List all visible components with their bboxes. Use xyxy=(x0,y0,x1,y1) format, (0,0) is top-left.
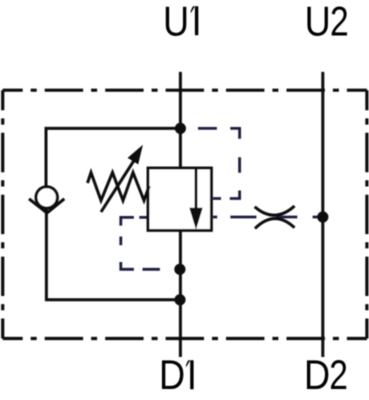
port label U2 xyxy=(305,0,349,45)
wire bottom-left (check valve bottom to D1 line) xyxy=(46,208,180,300)
junction dot (check valve return / D1 line) xyxy=(174,294,185,305)
wire top-left (junction to check valve top) xyxy=(46,128,180,187)
junction dot (pilot C / D1 line) xyxy=(174,264,185,275)
valve flow-path arrowhead xyxy=(189,208,202,230)
wire U1 (port U1 to valve inlet) xyxy=(179,72,182,168)
port label D2 xyxy=(304,353,348,399)
pilot line A (upstream pressure to valve top-right, dashed) xyxy=(198,128,240,198)
port label U1 xyxy=(163,0,198,45)
svg-text:U: U xyxy=(305,0,331,45)
adjustment arrow shaft xyxy=(101,160,135,212)
restrictor (orifice) lower arc xyxy=(255,219,295,229)
spring xyxy=(88,173,150,201)
junction dot (pilot B / U2 line) xyxy=(317,211,328,222)
svg-text:D: D xyxy=(159,353,185,399)
restrictor (orifice) upper arc xyxy=(255,206,295,215)
adjustment arrowhead xyxy=(128,145,143,165)
pilot line B (valve right side to U2 line, dashed) xyxy=(213,216,318,219)
enclosure boundary (dash-dot frame) xyxy=(3,90,367,338)
check valve CV1 (seat) xyxy=(29,199,64,213)
valve body V1 xyxy=(148,168,211,230)
svg-text:2: 2 xyxy=(329,353,348,399)
svg-text:2: 2 xyxy=(330,0,349,45)
svg-text:D: D xyxy=(304,353,330,399)
port label D1 xyxy=(159,353,194,399)
valve flow-path stem xyxy=(195,168,198,212)
pilot line C (valve left side down to D1 line, dashed) xyxy=(121,217,160,269)
wire U2-D2 (through line) xyxy=(321,72,324,357)
check valve CV1 (ball) xyxy=(36,187,57,208)
svg-text:U: U xyxy=(163,0,189,45)
wire D1 (valve outlet to port D1) xyxy=(179,230,182,357)
junction dot (U1 / pilot A) xyxy=(175,123,186,134)
